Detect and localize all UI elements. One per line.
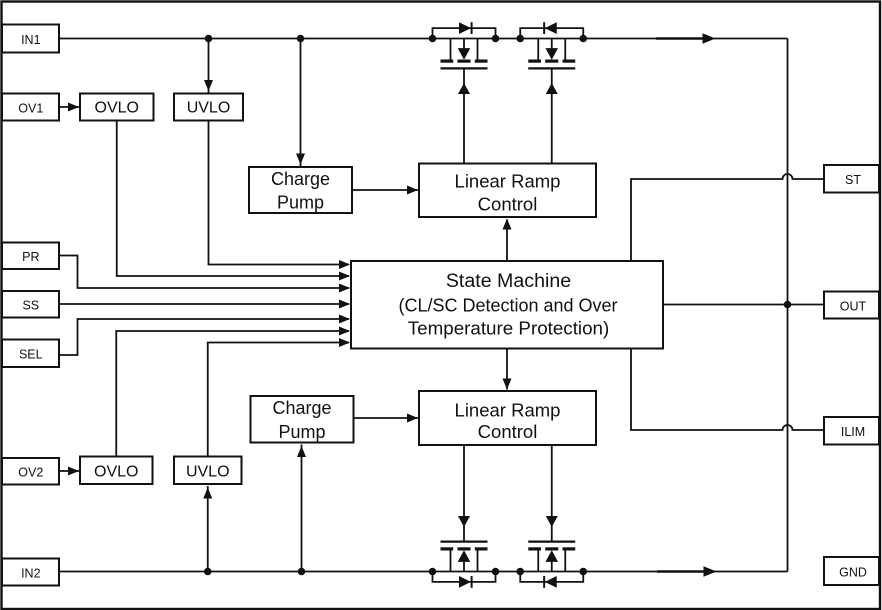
svg-text:ST: ST xyxy=(845,173,861,187)
svg-text:Charge: Charge xyxy=(272,398,331,418)
svg-text:OVLO: OVLO xyxy=(95,100,139,117)
svg-text:IN2: IN2 xyxy=(21,566,41,580)
svg-text:UVLO: UVLO xyxy=(186,463,230,480)
svg-text:OV2: OV2 xyxy=(18,466,43,480)
svg-text:OVLO: OVLO xyxy=(94,463,138,480)
svg-text:IN1: IN1 xyxy=(21,33,41,47)
svg-text:Pump: Pump xyxy=(277,193,324,213)
svg-text:SEL: SEL xyxy=(19,348,43,362)
svg-text:OUT: OUT xyxy=(840,299,867,313)
svg-text:PR: PR xyxy=(22,250,39,264)
svg-text:State Machine: State Machine xyxy=(446,270,571,292)
svg-text:Control: Control xyxy=(478,421,538,442)
svg-text:Temperature Protection): Temperature Protection) xyxy=(408,317,609,338)
svg-text:OV1: OV1 xyxy=(18,101,43,115)
svg-text:GND: GND xyxy=(839,565,867,579)
svg-text:(CL/SC Detection and Over: (CL/SC Detection and Over xyxy=(398,296,617,316)
svg-text:Control: Control xyxy=(478,193,538,214)
svg-text:ILIM: ILIM xyxy=(841,425,865,439)
svg-text:SS: SS xyxy=(22,299,39,313)
svg-text:Linear Ramp: Linear Ramp xyxy=(455,170,561,191)
svg-text:Charge: Charge xyxy=(271,169,330,189)
svg-text:Linear Ramp: Linear Ramp xyxy=(455,400,561,421)
svg-text:UVLO: UVLO xyxy=(187,100,231,117)
svg-text:Pump: Pump xyxy=(278,422,325,442)
